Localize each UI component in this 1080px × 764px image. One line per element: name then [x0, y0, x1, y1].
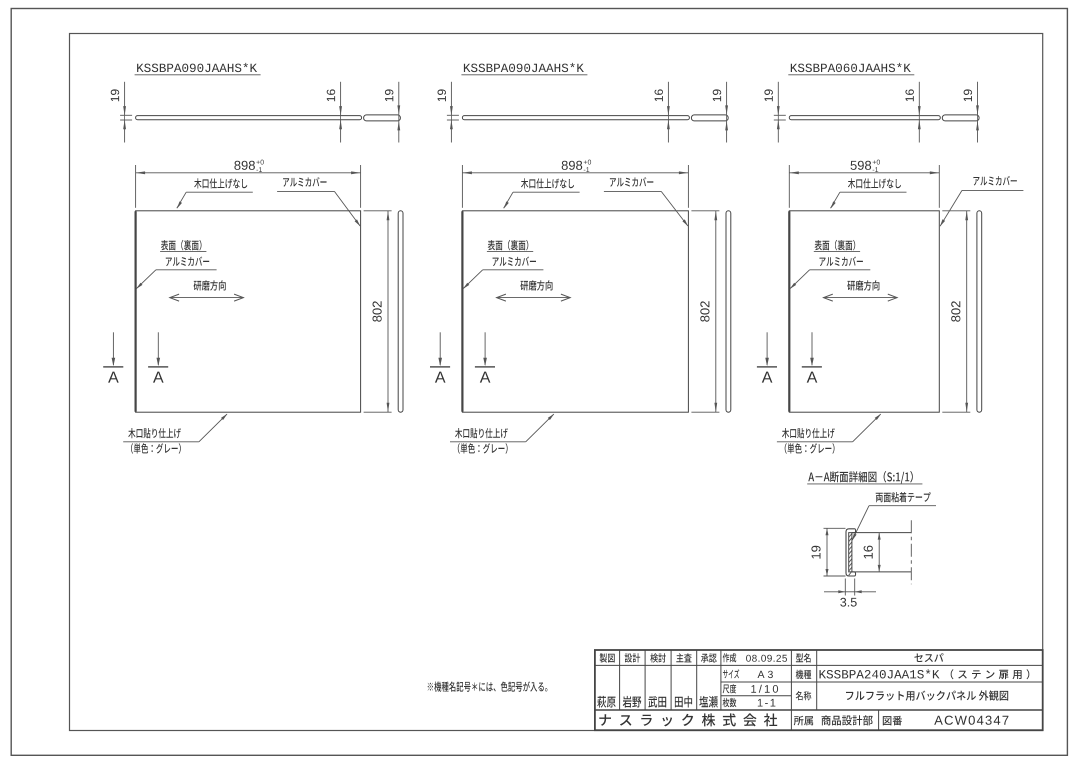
title block row1: katamei / sesupa: [796, 653, 811, 662]
panel KSSBPA060JAAHS*K: label aluminum cover (right edge): [973, 176, 1016, 186]
panel KSSBPA090JAAHS*K: label kuchi-hari finish (bottom edge): [455, 428, 508, 438]
panel KSSBPA060JAAHS*K: width dimension 598: [788, 165, 790, 208]
panel KSSBPA090JAAHS*K: section marks A-A: [439, 332, 441, 365]
panel KSSBPA090JAAHS*K: width dimension 898: [135, 165, 137, 208]
A-A: label double-sided adhesive tape: [876, 492, 931, 502]
panel KSSBPA060JAAHS*K: top view aluminum cover bar: [942, 115, 979, 121]
panel KSSBPA090JAAHS*K: top view panel bar: [462, 116, 689, 120]
title block row2: kishu model: [796, 670, 812, 679]
panel KSSBPA090JAAHS*K: top view panel bar: [136, 116, 362, 120]
panel KSSBPA090JAAHS*K: top view dim 19 left: [450, 82, 452, 116]
panel KSSBPA090JAAHS*K: label kuchi-hari finish (bottom edge): [128, 428, 181, 438]
panel KSSBPA090JAAHS*K: front view rectangle: [136, 211, 361, 412]
title block: signature names: [597, 696, 616, 708]
panel KSSBPA090JAAHS*K: top view dim 19 left: [124, 82, 126, 116]
title block: outer border: [595, 650, 1043, 730]
panel KSSBPA090JAAHS*K: width dimension 898: [461, 165, 463, 208]
panel KSSBPA060JAAHS*K: front view rectangle: [789, 211, 939, 412]
panel KSSBPA060JAAHS*K: top view dim 19 right: [977, 82, 979, 115]
A-A section detail title: [808, 471, 913, 484]
panel KSSBPA090JAAHS*K: height dimension 802: [691, 210, 719, 212]
panel KSSBPA090JAAHS*K: label front face (back face): [161, 240, 202, 251]
title block row2: size A3: [723, 669, 739, 678]
panel KSSBPA060JAAHS*K: height dimension 802: [942, 210, 970, 212]
panel KSSBPA090JAAHS*K: label polishing direction + arrow: [520, 280, 552, 290]
panel KSSBPA060JAAHS*K: label kuchi-shiage-nashi (top edge): [848, 178, 901, 188]
title block row5: drawing number: [883, 716, 902, 726]
panel KSSBPA090JAAHS*K: aluminum cover strip (right): [726, 211, 731, 412]
A-A: aluminum cover C-channel profile: [846, 529, 855, 576]
panel KSSBPA090JAAHS*K: front view rectangle: [462, 211, 688, 412]
panel KSSBPA090JAAHS*K: label aluminum cover (right edge): [283, 177, 326, 187]
title block row4: sheets 1-1: [723, 698, 737, 707]
A-A: dim 19 (left): [824, 527, 846, 529]
panel KSSBPA060JAAHS*K: label kuchi-hari finish (bottom edge): [782, 428, 835, 438]
panel KSSBPA060JAAHS*K: aluminum cover strip (right): [977, 211, 982, 412]
panel KSSBPA090JAAHS*K: model code title: [464, 63, 584, 72]
A-A: adhesive tape hatch: [849, 534, 852, 576]
panel KSSBPA090JAAHS*K: label front face (back face): [488, 240, 529, 251]
title block row1: role labels: [600, 653, 615, 662]
panel KSSBPA090JAAHS*K: label kuchi-shiage-nashi (top edge): [521, 178, 574, 188]
panel KSSBPA090JAAHS*K: top view dim 19 right: [398, 82, 400, 115]
panel KSSBPA090JAAHS*K: top view dim 19 right: [726, 82, 728, 115]
title block row5: company name: [599, 713, 777, 726]
panel KSSBPA060JAAHS*K: label front face (back face): [815, 240, 856, 251]
A-A: panel end edge at tape: [851, 533, 853, 572]
panel KSSBPA090JAAHS*K: label aluminum cover (left edge): [493, 257, 536, 267]
panel KSSBPA090JAAHS*K: top view aluminum cover bar: [691, 115, 728, 121]
A-A: dim 16: [878, 533, 880, 572]
title block row1: sakusei date: [723, 653, 737, 662]
A-A: panel cross-section lines: [852, 532, 911, 534]
A-A: center/break line: [910, 520, 912, 584]
panel KSSBPA090JAAHS*K: label aluminum cover (right edge): [610, 177, 653, 187]
title block row3: scale 1/10: [723, 684, 737, 693]
title block: meisho product name: [796, 691, 812, 700]
panel KSSBPA060JAAHS*K: section marks A-A: [766, 332, 768, 365]
title block row5: dept: [794, 716, 813, 726]
panel KSSBPA090JAAHS*K: top view dim 16: [340, 82, 342, 116]
panel KSSBPA060JAAHS*K: top view dim 19 left: [777, 82, 779, 116]
note: model-name symbol remark: [428, 681, 548, 691]
panel KSSBPA090JAAHS*K: label polishing direction + arrow: [194, 280, 226, 290]
A-A: dim 3.5: [844, 579, 846, 596]
panel KSSBPA090JAAHS*K: label aluminum cover (left edge): [166, 257, 209, 267]
panel KSSBPA060JAAHS*K: label aluminum cover (left edge): [820, 257, 863, 267]
panel KSSBPA090JAAHS*K: top view dim 16: [667, 82, 669, 116]
panel KSSBPA060JAAHS*K: top view panel bar: [789, 116, 940, 120]
panel KSSBPA090JAAHS*K: aluminum cover strip (right): [398, 211, 403, 412]
panel KSSBPA090JAAHS*K: top view aluminum cover bar: [364, 115, 401, 121]
panel KSSBPA090JAAHS*K: model code title: [137, 63, 257, 72]
panel KSSBPA090JAAHS*K: height dimension 802: [364, 210, 392, 212]
panel KSSBPA090JAAHS*K: label kuchi-shiage-nashi (top edge): [194, 178, 247, 188]
panel KSSBPA060JAAHS*K: label polishing direction + arrow: [847, 280, 879, 290]
panel KSSBPA090JAAHS*K: section marks A-A: [112, 332, 114, 365]
title block: grid lines: [619, 650, 621, 710]
panel KSSBPA060JAAHS*K: model code title: [791, 63, 911, 72]
panel KSSBPA060JAAHS*K: top view dim 16: [918, 82, 920, 116]
